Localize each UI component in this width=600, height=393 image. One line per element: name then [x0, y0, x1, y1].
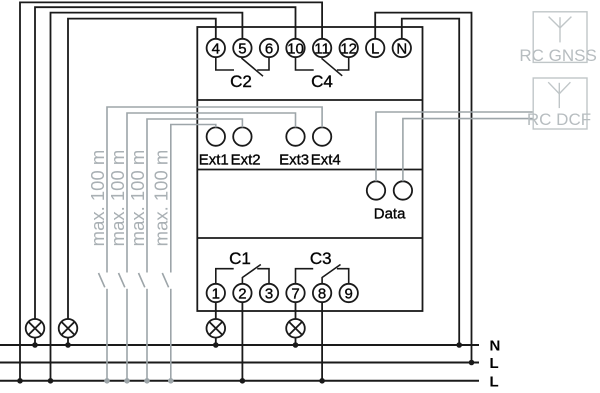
svg-text:max. 100 m: max. 100 m [107, 150, 128, 247]
terminal 12 [340, 39, 358, 58]
wire terminal 2 to L2 rail [241, 302, 243, 381]
svg-text:7: 7 [291, 285, 299, 302]
svg-text:Data: Data [374, 206, 406, 223]
svg-text:C2: C2 [230, 72, 252, 91]
wire Data1 to RC DCF [376, 112, 533, 181]
wire Ext2 switch S2 [139, 119, 243, 381]
terminal 1 [207, 284, 225, 303]
wire terminal 5 to left rail [51, 13, 243, 381]
wire terminal 11 to left rail [20, 2, 322, 380]
junction dot wire2/L2 [240, 378, 246, 384]
input Ext2 [233, 127, 251, 145]
lamp E2 [59, 319, 78, 345]
device box U1 [197, 27, 422, 311]
terminal N [393, 39, 411, 58]
junction dot S1/L2 [168, 378, 174, 384]
contact C2 [216, 57, 269, 76]
svg-text:max. 100 m: max. 100 m [87, 150, 108, 247]
contact C4 [296, 57, 349, 76]
svg-text:Ext2: Ext2 [231, 151, 261, 168]
terminal 4 [207, 39, 225, 58]
svg-text:5: 5 [238, 40, 246, 57]
svg-text:C4: C4 [311, 72, 333, 91]
antenna RC GNSS [533, 12, 587, 63]
junction dot N [456, 342, 462, 348]
wire terminal 10 to lamp E1 [35, 7, 296, 319]
terminal L [366, 39, 384, 58]
terminal 8 [313, 284, 331, 303]
junction dot S4/L2 [104, 378, 110, 384]
junction dot wire11/L2 [17, 378, 23, 384]
wire terminal 8 to L2 rail [321, 302, 323, 381]
terminal 5 [233, 39, 251, 58]
lamp E3 [207, 319, 226, 345]
terminal 3 [260, 284, 278, 303]
svg-text:6: 6 [265, 40, 273, 57]
svg-text:L: L [490, 373, 499, 390]
svg-text:max. 100 m: max. 100 m [127, 150, 148, 247]
terminal 7 [286, 284, 304, 303]
contact C1 [216, 265, 269, 284]
svg-text:4: 4 [212, 40, 220, 57]
wire Ext3 switch S3 [119, 113, 296, 381]
svg-text:C3: C3 [310, 249, 332, 268]
terminal 10 [286, 39, 304, 58]
svg-text:N: N [396, 40, 407, 57]
wire Ext1 switch S1 [162, 125, 216, 381]
contact C3 [296, 265, 349, 284]
svg-text:12: 12 [340, 40, 357, 57]
svg-text:L: L [490, 355, 499, 372]
wire terminal 1 to lamp E3 [215, 302, 217, 319]
input Ext1 [207, 127, 225, 145]
wire terminal L to L rail [375, 13, 471, 363]
antenna RC DCF [533, 78, 587, 129]
terminal 6 [260, 39, 278, 58]
svg-text:1: 1 [212, 285, 220, 302]
svg-text:Ext4: Ext4 [311, 151, 341, 168]
junction dot S2/L2 [144, 378, 150, 384]
terminal 9 [340, 284, 358, 303]
svg-text:Ext3: Ext3 [279, 151, 309, 168]
bus N [0, 344, 479, 346]
junction dot lamp E1 [32, 342, 38, 348]
svg-text:9: 9 [345, 285, 353, 302]
svg-text:max. 100 m: max. 100 m [151, 150, 172, 247]
input Ext3 [286, 127, 304, 145]
bus L2 [0, 380, 479, 382]
divider section line 2 [197, 169, 422, 171]
lamp E4 [286, 319, 305, 345]
svg-text:2: 2 [238, 285, 246, 302]
divider section line 1 [197, 99, 422, 101]
junction dot S3/L2 [124, 378, 130, 384]
svg-text:N: N [490, 337, 501, 354]
wire Data2 to RC DCF [403, 119, 533, 182]
svg-text:RC DCF: RC DCF [527, 110, 591, 129]
junction dot L [469, 360, 475, 366]
wire terminal 4 to lamp E2 [68, 19, 216, 320]
wire terminal 7 to lamp E4 [295, 302, 297, 319]
input Ext4 [313, 127, 331, 145]
lamp E1 [26, 319, 45, 345]
terminal Data2 [394, 181, 412, 199]
divider section line 3 [197, 237, 422, 239]
svg-text:C1: C1 [229, 249, 251, 268]
junction dot lamp E3 [213, 342, 219, 348]
wire Ext4 switch S4 [99, 107, 323, 381]
terminal Data1 [367, 181, 385, 199]
junction dot lamp E2 [65, 342, 71, 348]
wire terminal N to N rail [402, 19, 459, 345]
svg-text:3: 3 [265, 285, 273, 302]
terminal 11 [313, 39, 331, 58]
svg-text:8: 8 [318, 285, 326, 302]
junction dot lamp E4 [293, 342, 299, 348]
bus L1 [0, 362, 479, 364]
svg-text:L: L [371, 40, 379, 57]
svg-text:10: 10 [287, 40, 304, 57]
svg-text:Ext1: Ext1 [199, 151, 229, 168]
terminal 2 [233, 284, 251, 303]
junction dot wire5/L2 [48, 378, 54, 384]
svg-text:RC GNSS: RC GNSS [519, 46, 596, 65]
junction dot wire8/L2 [319, 378, 325, 384]
svg-text:11: 11 [314, 40, 330, 57]
